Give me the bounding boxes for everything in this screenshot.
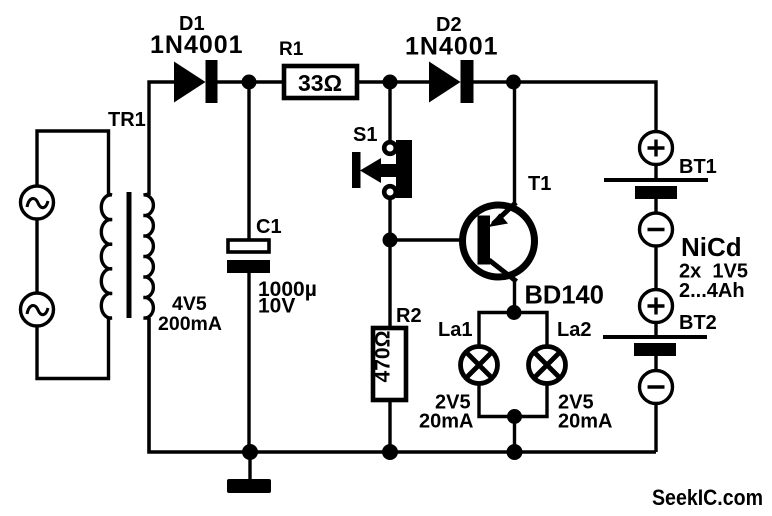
label 2V5 (La2): [558, 392, 594, 414]
AC source top: [21, 186, 54, 219]
wire primary top: [37, 131, 109, 194]
wire secondary top to D1: [149, 82, 175, 195]
label La1: [438, 319, 472, 341]
AC source bottom: [21, 293, 54, 326]
transformer TR1 primary winding: [101, 194, 112, 318]
svg-text:33Ω: 33Ω: [298, 70, 342, 96]
label 1N4001 (D1): [150, 31, 244, 59]
label BT2: [679, 312, 717, 334]
wire D1 to R1: [217, 80, 282, 83]
svg-text:20mA: 20mA: [558, 411, 612, 433]
battery BT2: [603, 290, 707, 404]
node ground junction: [242, 444, 258, 460]
label D1: [179, 13, 205, 35]
lamp La1: [461, 347, 498, 384]
label C1: [256, 216, 282, 238]
svg-text:R2: R2: [396, 305, 422, 327]
wire S1 branch top: [388, 82, 391, 143]
node after D2: [506, 75, 521, 90]
resistor R2: [372, 328, 407, 400]
wire R2 bottom: [388, 400, 391, 452]
transistor T1: [463, 203, 535, 282]
ground: [227, 452, 271, 493]
lamp La2: [529, 347, 566, 384]
svg-text:2...4Ah: 2...4Ah: [679, 280, 745, 302]
watermark SeekIC.com: [652, 485, 763, 510]
wire C1 branch top: [247, 82, 250, 240]
svg-text:4V5: 4V5: [172, 293, 207, 315]
node after R1: [383, 75, 398, 90]
wire lamp stem: [513, 417, 516, 453]
label 2x 1V5: [679, 261, 748, 283]
wire R2 top: [388, 240, 391, 327]
svg-text:SeekIC.com: SeekIC.com: [652, 485, 763, 510]
transformer TR1 secondary winding: [144, 194, 154, 318]
capacitor C1: [227, 240, 270, 273]
svg-text:470Ω: 470Ω: [372, 331, 395, 383]
svg-text:BT2: BT2: [679, 312, 717, 334]
label 1000µ: [258, 278, 317, 301]
transformer TR1 core: [127, 192, 132, 318]
switch S1: [352, 140, 412, 198]
svg-text:BT1: BT1: [679, 156, 717, 178]
wire R1 to D2: [359, 80, 430, 83]
label S1: [353, 124, 377, 146]
diode D2: [429, 60, 474, 103]
wire S1 to base node: [388, 198, 391, 240]
label R1: [279, 39, 304, 60]
label La2: [557, 319, 591, 341]
svg-text:La1: La1: [438, 319, 472, 341]
label 10V: [258, 295, 295, 318]
label T1: [528, 173, 551, 195]
wire collector down: [513, 279, 516, 313]
label R2: [396, 305, 422, 327]
wire D2 to right corner: [473, 82, 656, 132]
wire primary bottom: [37, 318, 109, 379]
svg-text:200mA: 200mA: [158, 313, 222, 335]
label 20mA (La1): [419, 411, 473, 433]
svg-text:La2: La2: [557, 319, 591, 341]
label 2...4Ah: [679, 280, 745, 302]
battery BT1: [604, 132, 708, 247]
diode D1: [174, 60, 218, 103]
svg-text:1N4001: 1N4001: [150, 31, 244, 59]
svg-text:10V: 10V: [258, 295, 295, 318]
label BD140: [525, 282, 604, 310]
svg-text:BD140: BD140: [525, 282, 604, 310]
resistor R1: [284, 66, 357, 98]
wire lamp bottom bracket: [479, 384, 547, 417]
node lamp rail junction: [507, 444, 523, 460]
svg-text:1N4001: 1N4001: [405, 33, 499, 61]
wire lamp top bracket: [479, 313, 547, 346]
node R2 rail junction: [382, 444, 398, 460]
label BT1: [679, 156, 717, 178]
label 1N4001 (D2): [405, 33, 499, 61]
svg-text:20mA: 20mA: [419, 411, 473, 433]
svg-text:S1: S1: [353, 124, 377, 146]
wire base: [390, 238, 462, 241]
label NiCd: [681, 232, 742, 262]
node lamp top: [507, 305, 522, 320]
svg-text:NiCd: NiCd: [681, 232, 742, 262]
label 4V5: [172, 293, 207, 315]
wire BT2 to rail: [654, 403, 657, 452]
label D2: [436, 14, 462, 36]
wire emitter up: [513, 82, 516, 206]
wire BT1 to BT2: [654, 246, 657, 290]
wire C1 bottom: [247, 273, 250, 452]
node base junction: [383, 233, 398, 248]
svg-text:R1: R1: [279, 39, 304, 60]
label TR1: [108, 109, 146, 131]
svg-text:TR1: TR1: [108, 109, 146, 131]
node lamp bottom: [507, 409, 522, 424]
label 2V5 (La1): [435, 392, 471, 414]
svg-text:C1: C1: [256, 216, 282, 238]
label 200mA: [158, 313, 222, 335]
wire bottom rail: [149, 318, 656, 452]
svg-text:T1: T1: [528, 173, 551, 195]
wire between AC sources: [35, 219, 38, 293]
node after D1: [242, 75, 257, 90]
label 20mA (La2): [558, 411, 612, 433]
